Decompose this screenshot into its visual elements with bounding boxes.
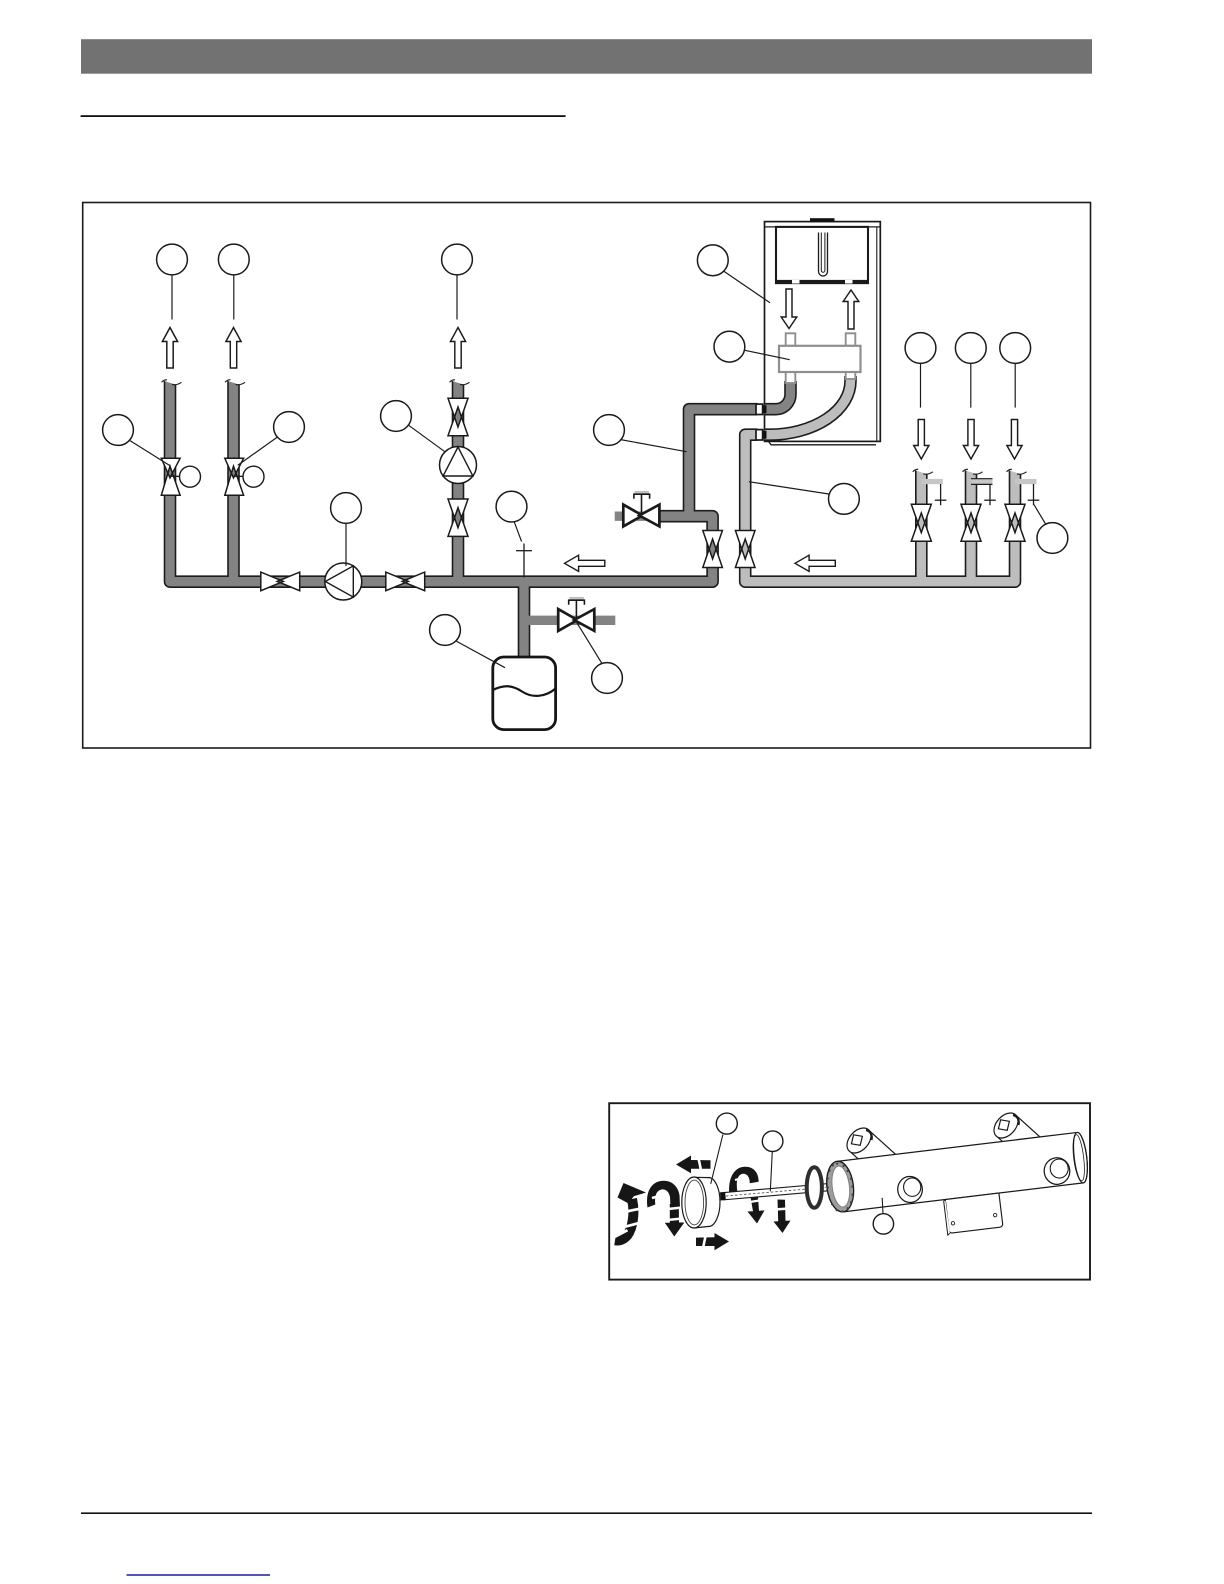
- footer link underline: [127, 1574, 271, 1576]
- pipe break symbol pipe B: [963, 468, 983, 474]
- leader 9: [409, 425, 446, 452]
- black down arrow A: [747, 1190, 765, 1224]
- leader 1: [171, 275, 173, 320]
- tank stub 1: [842, 1123, 898, 1177]
- heat exchanger bottom stubs: [786, 372, 796, 383]
- leader 13: [576, 622, 602, 664]
- boiler shell: [765, 222, 881, 445]
- valve H1 on main: [261, 572, 300, 591]
- dark pipe curve inside boiler: [765, 381, 791, 409]
- fill stub pipe C: [1015, 479, 1037, 484]
- rotation curl arrow left: [611, 1183, 646, 1240]
- leader 6: [620, 440, 686, 452]
- wire: pipe B: [965, 471, 978, 582]
- fill cross A: [935, 484, 947, 505]
- footer rule: [81, 1512, 1092, 1514]
- pipe break symbol pipe C: [1007, 468, 1027, 474]
- callout circle 17: [1000, 333, 1031, 364]
- leader 4: [724, 271, 771, 303]
- header bar: [81, 39, 1092, 73]
- callout circle 9: [381, 401, 412, 432]
- heading underline: [81, 115, 566, 117]
- callout circle 3: [442, 244, 473, 275]
- anode rod: [720, 1183, 831, 1201]
- down arrow pipe B: [963, 420, 978, 460]
- callout circle 15: [905, 333, 936, 364]
- callout circle 18: [1037, 523, 1068, 554]
- leader 15: [920, 363, 922, 407]
- fill stub pipe B: [971, 479, 993, 484]
- leader 2: [233, 275, 235, 320]
- flow arrow left 1: [565, 555, 605, 571]
- black arrow left (top): [676, 1154, 711, 1176]
- wire: drain stub 1: [659, 510, 689, 523]
- callout circle 14: [829, 484, 860, 515]
- leader 8: [345, 524, 347, 567]
- callout circle 6: [594, 415, 625, 446]
- pump P2 (vertical): [440, 447, 477, 484]
- fill cross main: [516, 544, 532, 578]
- valve on pipe B: [961, 504, 981, 541]
- drain valve DV1: [623, 491, 659, 527]
- callout S3: [873, 1198, 893, 1234]
- leader 12: [456, 641, 505, 668]
- valve lower on pump line: [448, 499, 468, 536]
- mounting plate: [945, 1193, 1003, 1233]
- rotation curl arrow second: [647, 1181, 684, 1237]
- heat exchanger top stubs: [786, 333, 796, 346]
- callout circle 4: [697, 245, 728, 276]
- tank port 1: [896, 1175, 924, 1204]
- callout S2: [762, 1131, 783, 1191]
- leader 17: [1014, 363, 1016, 407]
- rotation curl over rod: [729, 1167, 759, 1194]
- wire: pipe1 + main run + riser to boiler: [170, 381, 758, 582]
- tank stub 2: [989, 1108, 1045, 1162]
- black arrow right (bottom): [696, 1232, 729, 1254]
- tank left gasket ring: [824, 1160, 856, 1214]
- callout circle 7: [496, 491, 527, 522]
- leader 16: [970, 363, 972, 407]
- flow arrow left 2: [795, 555, 835, 571]
- valve on pipe A: [911, 504, 931, 541]
- up arrow pipe2: [226, 328, 241, 369]
- igniter element: [819, 233, 828, 277]
- black down arrow B: [774, 1200, 791, 1234]
- valve upper on pump line: [448, 398, 468, 435]
- flow up-arrow inside boiler: [843, 290, 859, 329]
- tank port 2: [1043, 1156, 1072, 1185]
- pipe break symbol pipe A: [913, 468, 933, 474]
- callout circle 16: [955, 333, 986, 364]
- callout S1: [711, 1113, 738, 1184]
- leader 14: [749, 482, 829, 494]
- leader 18: [1034, 505, 1046, 525]
- pipe break symbol pipe1: [162, 379, 182, 385]
- valve on pipe C: [1005, 504, 1025, 541]
- expansion vessel: [493, 657, 556, 730]
- fill stubs on pipes A B C: [921, 479, 1036, 485]
- up arrow pipe1: [162, 328, 177, 369]
- leader 5: [745, 350, 790, 359]
- pump P1 (horizontal): [325, 563, 362, 600]
- callout circle 8: [331, 493, 362, 524]
- return connector at boiler wall: [756, 430, 763, 440]
- figure 2 frame: [609, 1103, 1090, 1279]
- wire: pipe3 pump line: [452, 381, 465, 582]
- callout circle 11: [274, 412, 305, 443]
- motor valve on pipe1: [161, 458, 200, 495]
- leader 10: [129, 440, 171, 466]
- figure 1 frame: [83, 203, 1091, 749]
- torn pipe tops: [162, 379, 1027, 475]
- wire: pipe2: [227, 381, 240, 582]
- heat exchanger U1: [779, 346, 861, 372]
- callout circle 5: [714, 331, 745, 362]
- light pipe network understroke: [745, 435, 1015, 582]
- flow connector at boiler wall: [763, 405, 767, 413]
- combustion chamber box: [776, 227, 868, 284]
- washer: [807, 1167, 822, 1208]
- dark pipe network fill: [170, 381, 758, 658]
- wire: vessel drop: [518, 582, 531, 658]
- drain valve DV2: [558, 597, 594, 631]
- fill cross C: [1028, 484, 1040, 505]
- flow down-arrow inside boiler: [781, 289, 797, 329]
- callout circle 12: [430, 615, 461, 646]
- dark pipe network understroke: [170, 381, 758, 658]
- callout circle 10: [103, 415, 134, 446]
- wall connectors: [756, 404, 767, 440]
- leader 11: [238, 437, 278, 465]
- valve H2 on main: [386, 572, 425, 591]
- anode cap: [682, 1177, 720, 1228]
- pipe break symbol pipe2: [225, 379, 245, 385]
- valve on boiler riser: [703, 531, 723, 568]
- callout circle 2: [218, 244, 249, 275]
- light pipe curve inside boiler: [765, 376, 851, 435]
- motor valve on pipe2: [225, 458, 264, 495]
- boiler top tab: [810, 218, 835, 222]
- leader 7: [514, 521, 522, 541]
- fill cross B: [984, 484, 996, 505]
- tank body: [824, 1132, 1094, 1249]
- light pipe network fill: [745, 435, 1015, 582]
- callout circle 13: [592, 663, 623, 694]
- up arrow pipe3: [450, 328, 465, 369]
- wire: light return main: [745, 435, 1015, 582]
- wire: pipe A: [915, 471, 928, 582]
- fill stub pipe A: [921, 479, 943, 484]
- pipe break symbol pipe3: [450, 379, 470, 385]
- down arrow pipe A: [914, 420, 929, 460]
- valve on light return: [735, 531, 755, 568]
- down arrow pipe C: [1007, 420, 1022, 460]
- leader 3: [456, 275, 458, 320]
- callout circle 1: [157, 244, 188, 275]
